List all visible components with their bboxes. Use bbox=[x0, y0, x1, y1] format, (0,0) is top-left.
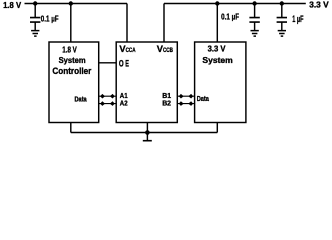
block U3: 3.3V system bbox=[195, 42, 246, 123]
wire 3.3V system GND drop bbox=[216, 123, 218, 133]
block U1: 1.8V system controller bbox=[49, 42, 99, 123]
net 3.3V rail horizontal bbox=[164, 3, 306, 5]
svg-text:A2: A2 bbox=[120, 98, 128, 107]
wire translator GND drop bbox=[146, 123, 148, 133]
svg-text:System: System bbox=[202, 55, 233, 65]
svg-text:B2: B2 bbox=[162, 98, 171, 107]
wire controller GND drop bbox=[70, 123, 72, 133]
svg-text:1.8 V: 1.8 V bbox=[3, 0, 21, 10]
wire C2 top lead bbox=[254, 4, 256, 18]
svg-text:1.8 V: 1.8 V bbox=[62, 46, 77, 55]
svg-text:System: System bbox=[59, 55, 86, 65]
node junction on 1.8V rail at controller Vcc bbox=[69, 1, 73, 5]
wire data bus A2 (bidirectional arrow) bbox=[99, 101, 117, 106]
svg-text:O: O bbox=[119, 59, 124, 69]
ground symbol at bus bbox=[146, 133, 148, 141]
ground below C2 bbox=[251, 31, 259, 36]
svg-text:0.1 µF: 0.1 µF bbox=[41, 14, 59, 24]
svg-text:3.3 V: 3.3 V bbox=[309, 0, 329, 9]
wire data bus A1 (bidirectional arrow) bbox=[99, 94, 117, 99]
node junction on ground bus bbox=[145, 130, 150, 135]
svg-text:1 µF: 1 µF bbox=[292, 14, 304, 24]
node junction on 3.3V rail at C2 bbox=[252, 1, 256, 5]
wire controller Vcc drop bbox=[70, 4, 72, 43]
ground below C3 bbox=[278, 31, 286, 36]
svg-text:Controller: Controller bbox=[52, 66, 91, 76]
svg-text:Data: Data bbox=[197, 94, 210, 103]
capacitor C3 1uF plates bbox=[277, 18, 287, 23]
wire data bus B1 (bidirectional arrow) bbox=[177, 94, 194, 99]
wire 1.8V rail horizontal bbox=[25, 3, 128, 5]
node junction on 3.3V rail at C3 bbox=[280, 1, 284, 5]
svg-text:Data: Data bbox=[75, 94, 88, 103]
svg-text:E: E bbox=[125, 59, 129, 69]
wire Vccb drop from 3.3V rail bbox=[163, 4, 165, 43]
node junction on 1.8V rail at C1 bbox=[33, 1, 37, 5]
wire C2 bottom lead bbox=[254, 22, 256, 30]
svg-text:0.1 µF: 0.1 µF bbox=[221, 12, 239, 22]
wire C3 bottom lead bbox=[281, 22, 283, 30]
node junction on 3.3V rail at system Vcc bbox=[215, 1, 219, 5]
wire C1 top lead bbox=[34, 4, 36, 18]
capacitor C1 0.1uF plates bbox=[30, 18, 40, 23]
svg-text:CCA: CCA bbox=[126, 47, 136, 54]
svg-text:CCB: CCB bbox=[163, 47, 173, 54]
capacitor C2 0.1uF plates bbox=[249, 18, 259, 23]
wire data bus B2 (bidirectional arrow) bbox=[177, 101, 194, 106]
wire C1 bottom lead bbox=[34, 22, 36, 30]
svg-text:3.3 V: 3.3 V bbox=[208, 44, 226, 53]
wire C3 top lead bbox=[281, 4, 283, 18]
wire 3.3V system Vcc drop bbox=[216, 4, 218, 43]
ground below C1 bbox=[31, 31, 39, 36]
wire Vcca drop from 1.8V rail bbox=[126, 4, 128, 43]
block U2: level translator bbox=[116, 42, 177, 123]
wire OE connection bbox=[99, 62, 117, 64]
wire ground bus bbox=[71, 132, 218, 134]
